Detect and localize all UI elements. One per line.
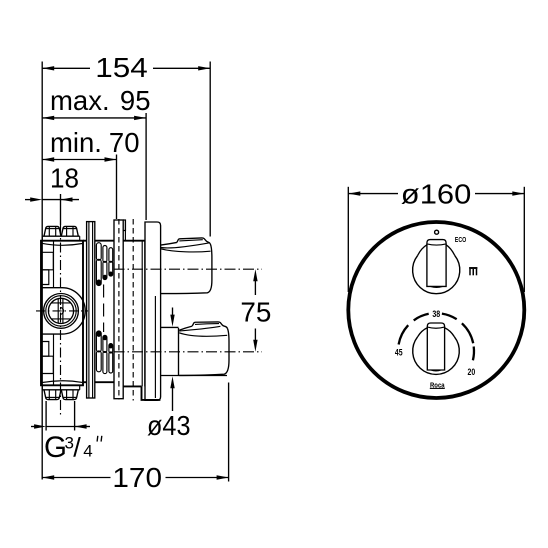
mounting plate 1 xyxy=(87,222,95,398)
cartridge ring xyxy=(44,294,79,329)
top knob side view xyxy=(161,242,177,245)
witness line right of 154 xyxy=(209,62,211,237)
body step notches top-left xyxy=(42,252,54,269)
body step notches bottom-left xyxy=(42,342,49,357)
top hex nuts xyxy=(44,226,61,236)
top knob fillets xyxy=(446,245,455,256)
dim o160 xyxy=(348,179,524,210)
dim min.70 xyxy=(42,127,139,162)
bottom hex nuts xyxy=(44,390,61,400)
svg-text:38: 38 xyxy=(432,309,440,319)
svg-text:ø43: ø43 xyxy=(147,410,191,441)
connector lines bottom xyxy=(83,381,87,383)
wall plane dashed line 2 xyxy=(132,219,134,401)
crosshair horizontal xyxy=(36,310,88,312)
bottom knob handle xyxy=(427,323,444,370)
top knob silhouette xyxy=(413,256,460,294)
temperature scale arc xyxy=(399,314,474,361)
svg-text:18: 18 xyxy=(50,162,79,193)
escutcheon back plate lines xyxy=(141,241,143,387)
connector lines top xyxy=(83,240,87,242)
faceplate circle xyxy=(348,222,524,398)
slots bottom band (dark tips pointing up) xyxy=(96,331,112,374)
plate 2 xyxy=(114,220,123,399)
svg-text:4: 4 xyxy=(83,442,92,461)
dim max.95 xyxy=(42,85,150,120)
cartridge slot verticals xyxy=(57,299,59,324)
top knob handle xyxy=(427,240,446,287)
knob centerline top xyxy=(114,268,263,270)
thread dash line xyxy=(103,285,105,333)
dim 154 xyxy=(42,52,210,83)
svg-text:min.: min. xyxy=(50,127,102,158)
valve body outline xyxy=(41,241,83,386)
svg-text:ø160: ø160 xyxy=(401,179,472,210)
witness line left (shared 154/max95/min70/18/170) xyxy=(41,62,43,480)
cartridge boss D-shape xyxy=(42,288,85,334)
svg-text:75: 75 xyxy=(240,297,271,328)
svg-text:G: G xyxy=(44,431,67,464)
dim G3/4 xyxy=(31,401,102,464)
knob centerline bottom xyxy=(114,351,263,353)
svg-text:/: / xyxy=(73,433,81,463)
dim 170 xyxy=(42,462,228,493)
svg-text:95: 95 xyxy=(120,85,151,116)
body collar curves xyxy=(42,243,82,245)
dim o43 xyxy=(147,308,191,441)
shower icon xyxy=(469,267,477,269)
cartridge chords xyxy=(51,302,70,304)
bottom knob sleeve xyxy=(161,326,179,328)
escutcheon xyxy=(145,222,161,400)
dim 75 xyxy=(240,269,271,352)
small center arc xyxy=(60,307,64,314)
bottom knob silhouette xyxy=(413,337,460,375)
dim 18 xyxy=(25,162,79,202)
slots top band (capsule pairs, dark tips pointing down) xyxy=(96,243,112,286)
svg-text:154: 154 xyxy=(95,52,148,83)
svg-text:ECO: ECO xyxy=(455,237,467,244)
body interior verticals xyxy=(53,241,55,288)
bottom knob fillets xyxy=(445,328,455,337)
vertical centerline of inlets xyxy=(60,225,62,417)
svg-text:max.: max. xyxy=(50,85,110,116)
off marker o xyxy=(435,230,439,234)
bottom knob side view xyxy=(179,326,192,330)
svg-text:170: 170 xyxy=(112,462,162,493)
cartridge inner circle xyxy=(48,298,73,323)
wall plane dashed line 1 xyxy=(118,219,120,400)
svg-text:20: 20 xyxy=(468,367,476,377)
svg-text:70: 70 xyxy=(109,127,140,158)
svg-text:45: 45 xyxy=(395,348,403,358)
